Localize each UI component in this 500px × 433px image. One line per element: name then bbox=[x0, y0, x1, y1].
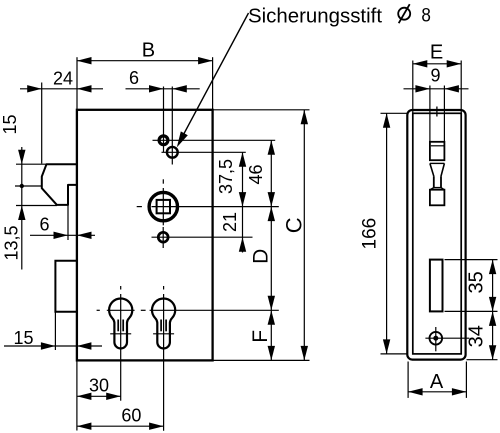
latch center line with dot bbox=[15, 184, 42, 188]
lock case outline (front view) bbox=[77, 110, 213, 361]
dim 6 (left) bbox=[30, 205, 95, 240]
bolt (front view) bbox=[55, 261, 77, 312]
case inner outline (side view) bbox=[413, 113, 461, 354]
svg-text:34: 34 bbox=[466, 325, 488, 347]
dim E bbox=[413, 60, 461, 113]
dim 37,5 / 21 line bbox=[239, 152, 246, 252]
label 6 (top) bbox=[129, 68, 139, 88]
latch bolt beak (front view) bbox=[42, 164, 78, 205]
label D bbox=[250, 249, 273, 264]
svg-text:21: 21 bbox=[220, 212, 240, 232]
svg-text:15: 15 bbox=[0, 114, 20, 134]
svg-text:37,5: 37,5 bbox=[216, 159, 236, 194]
bolt slot (side view) bbox=[430, 260, 443, 312]
label 46 bbox=[246, 164, 266, 184]
dim 9 bbox=[404, 85, 469, 92]
label 34 bbox=[466, 325, 488, 347]
svg-text:E: E bbox=[430, 42, 443, 64]
svg-text:24: 24 bbox=[53, 69, 73, 89]
pin hole below follower bbox=[152, 227, 253, 248]
diameter symbol bbox=[398, 4, 410, 23]
keyhole right (euro profile) bbox=[150, 286, 279, 431]
label 6 (left) bbox=[39, 215, 49, 235]
svg-text:46: 46 bbox=[246, 164, 266, 184]
dim 60 bbox=[77, 423, 164, 430]
svg-text:Sicherungsstift: Sicherungsstift bbox=[248, 6, 382, 28]
svg-text:30: 30 bbox=[89, 376, 109, 396]
bolt extension line bbox=[54, 312, 56, 350]
dim 6 (top) bbox=[126, 85, 200, 92]
label 8 bbox=[421, 5, 431, 27]
svg-text:8: 8 bbox=[421, 5, 431, 27]
dim 46 / D / F line bbox=[268, 140, 275, 360]
faceplate outline (side view) bbox=[407, 110, 465, 360]
label 35 bbox=[466, 271, 488, 293]
follower square spindle hub bbox=[137, 179, 279, 225]
svg-text:9: 9 bbox=[430, 66, 440, 86]
label E bbox=[430, 42, 443, 64]
svg-text:13,5: 13,5 bbox=[2, 225, 22, 260]
label 24 bbox=[53, 69, 73, 89]
svg-text:6: 6 bbox=[129, 68, 139, 88]
label 15 (left top) bbox=[0, 114, 20, 134]
label 60 bbox=[121, 406, 141, 426]
top centerline tick bbox=[436, 107, 438, 117]
svg-text:166: 166 bbox=[360, 218, 381, 250]
svg-text:6: 6 bbox=[39, 215, 49, 235]
label B bbox=[142, 40, 155, 62]
dim 30 bbox=[77, 393, 121, 400]
dim 15 (bottom left) bbox=[4, 342, 102, 349]
svg-text:D: D bbox=[250, 249, 273, 264]
dim 35 / 34 bbox=[489, 260, 496, 360]
label 37,5 bbox=[216, 159, 236, 194]
svg-text:C: C bbox=[282, 217, 307, 233]
case left bottom extension line bbox=[76, 360, 78, 430]
securing pin hole lower bbox=[162, 87, 246, 165]
keyhole left (euro profile) bbox=[97, 286, 146, 401]
dim C bbox=[214, 110, 310, 361]
slot extension lines bbox=[445, 260, 498, 360]
label 30 bbox=[89, 376, 109, 396]
svg-text:F: F bbox=[249, 330, 272, 343]
label 9 bbox=[430, 66, 440, 86]
label A bbox=[430, 371, 444, 393]
svg-text:15: 15 bbox=[13, 328, 33, 348]
title Sicherungsstift bbox=[248, 6, 382, 28]
label 15 (bottom left) bbox=[13, 328, 33, 348]
dim B bbox=[77, 57, 213, 110]
dim 24 bbox=[20, 83, 103, 164]
dim 166 bbox=[381, 113, 408, 354]
latch top extension line bbox=[16, 163, 47, 165]
latch (side view) bbox=[430, 142, 445, 206]
9 extension lines bbox=[430, 86, 445, 142]
dim A bbox=[408, 362, 466, 398]
svg-text:35: 35 bbox=[466, 271, 488, 293]
label F bbox=[249, 330, 272, 343]
latch bottom extension line bbox=[16, 205, 57, 207]
label C bbox=[282, 217, 307, 233]
label 21 bbox=[220, 212, 240, 232]
securing pin hole upper bbox=[153, 87, 276, 153]
leader line to securing pin bbox=[177, 13, 249, 147]
svg-text:60: 60 bbox=[121, 406, 141, 426]
label 13,5 (left) bbox=[2, 225, 22, 260]
screw hole (side view) bbox=[425, 327, 469, 351]
dim 15 / 13,5 line (left) bbox=[18, 147, 25, 270]
svg-text:A: A bbox=[430, 371, 444, 393]
svg-text:B: B bbox=[142, 40, 155, 62]
label 166 bbox=[360, 218, 381, 250]
